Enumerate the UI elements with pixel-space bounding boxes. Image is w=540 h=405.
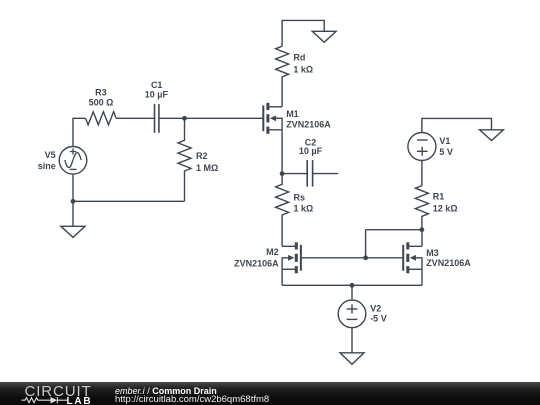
ground (under V2) <box>340 353 364 365</box>
wire: bottom rail <box>282 284 422 286</box>
wire: link row to R1 bottom <box>366 229 422 231</box>
junction dot at V5 bottom node <box>71 199 76 204</box>
footer title: ember.i / Common Drain <box>115 387 217 396</box>
svg-text:M3: M3 <box>426 248 439 258</box>
wire: C2 right plate output stub <box>313 173 339 175</box>
voltage source V2 <box>338 300 366 328</box>
wire: V1 top to flag <box>422 118 492 132</box>
svg-text:V1: V1 <box>439 136 450 146</box>
svg-text:C1: C1 <box>151 80 163 90</box>
voltage source V1 <box>408 133 436 161</box>
wire: R3 right to C1 left plate <box>116 117 154 119</box>
CircuitLab logo: LAB <box>67 397 93 405</box>
wire: M3 source down to rail <box>421 269 423 285</box>
resistor Rd <box>276 46 289 107</box>
svg-text:1 kΩ: 1 kΩ <box>293 65 313 75</box>
svg-text:12 kΩ: 12 kΩ <box>433 203 458 213</box>
svg-text:R3: R3 <box>95 87 107 97</box>
wire: gate link M2 to M3 <box>301 257 403 259</box>
svg-text:M2: M2 <box>266 247 279 257</box>
svg-text:ZVN2106A: ZVN2106A <box>286 119 331 129</box>
svg-text:ZVN2106A: ZVN2106A <box>234 258 279 268</box>
capacitor C1 <box>155 104 159 133</box>
svg-text:5 V: 5 V <box>439 147 453 157</box>
svg-text:V5: V5 <box>45 150 56 160</box>
wire: V2 bottom to ground <box>351 328 353 353</box>
svg-text:R1: R1 <box>433 192 445 202</box>
svg-text:1 MΩ: 1 MΩ <box>196 163 218 173</box>
svg-text:500 Ω: 500 Ω <box>89 98 114 108</box>
svg-text:-5 V: -5 V <box>370 314 387 324</box>
junction dot C2 node <box>280 171 285 176</box>
svg-text:M1: M1 <box>286 109 299 119</box>
resistor R1 <box>415 161 428 230</box>
CircuitLab logo: CIRCUIT <box>25 384 92 399</box>
svg-text:sine: sine <box>38 161 56 171</box>
transistor M2 (mirrored) <box>282 242 301 273</box>
junction dot gate link <box>363 255 368 260</box>
footer url <box>115 395 269 405</box>
wire: V5 top to R3 left <box>73 118 86 146</box>
wire: Rd top to supply flag <box>282 20 324 46</box>
footer bar <box>0 382 540 405</box>
ground flag (top right of Rd) <box>312 31 336 42</box>
svg-text:R2: R2 <box>196 151 208 161</box>
wire: M3 drain up to R1 node <box>421 230 423 247</box>
voltage source V5 (sine) <box>59 147 87 175</box>
svg-text:Rs: Rs <box>294 193 306 203</box>
ground flag (right of V1) <box>480 130 504 141</box>
ground (under V5) <box>61 226 85 237</box>
junction dot V2 node <box>350 283 355 288</box>
resistor Rs <box>276 174 289 247</box>
capacitor C2 <box>307 160 312 187</box>
wire: bottom row R2 to V5 <box>73 200 185 202</box>
svg-text:10 µF: 10 µF <box>145 90 169 100</box>
junction dot R1 bottom <box>420 227 425 232</box>
wire: gate link up <box>365 230 367 258</box>
resistor R3 <box>86 112 117 125</box>
CircuitLab logo: resistor-diode squiggle <box>21 396 71 405</box>
wire: node A to M1 gate <box>185 117 264 119</box>
node A junction dot <box>182 116 187 121</box>
wire: rail to V2 top <box>351 285 353 300</box>
transistor M3 <box>403 242 422 273</box>
svg-text:V2: V2 <box>370 304 381 314</box>
wire: C1 right plate to node A <box>159 117 185 119</box>
transistor M1 <box>263 103 282 134</box>
wire: node to C2 left plate <box>282 173 307 175</box>
wire: M2 source down to rail <box>281 269 283 285</box>
svg-text:10 µF: 10 µF <box>299 146 323 156</box>
svg-text:Rd: Rd <box>293 53 305 63</box>
svg-text:1 kΩ: 1 kΩ <box>294 203 314 213</box>
wire: V5 bottom <box>72 174 74 201</box>
wire: M1 source to C2 node <box>281 130 283 174</box>
resistor R2 <box>178 118 191 201</box>
svg-text:ZVN2106A: ZVN2106A <box>426 258 471 268</box>
wire: node to ground <box>72 201 74 226</box>
